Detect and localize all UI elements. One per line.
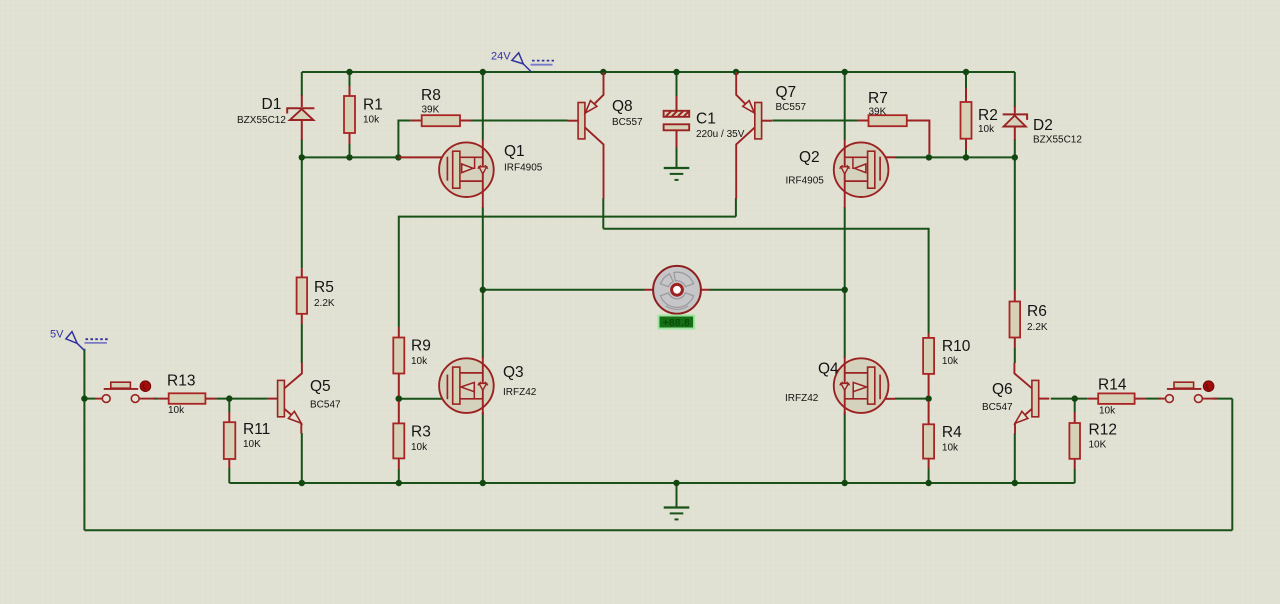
wire D1 upper segment xyxy=(301,72,303,96)
svg-text:BC547: BC547 xyxy=(310,400,341,411)
svg-text:R6: R6 xyxy=(1027,303,1047,320)
resistor R13 xyxy=(158,393,216,404)
svg-text:D1: D1 xyxy=(262,96,282,113)
svg-text:10k: 10k xyxy=(168,405,185,416)
svg-text:D2: D2 xyxy=(1033,117,1053,134)
svg-text:R9: R9 xyxy=(411,338,431,355)
svg-text:10k: 10k xyxy=(1099,406,1116,417)
svg-text:R12: R12 xyxy=(1089,422,1117,439)
wire R5 top from row xyxy=(301,157,303,268)
wire top 24V rail xyxy=(302,71,1015,73)
wire bottom return rail xyxy=(84,529,1232,531)
resistor R7 xyxy=(858,115,930,154)
resistor R12 xyxy=(1069,412,1080,469)
junction dots motor row xyxy=(480,287,848,293)
resistor R8 xyxy=(411,115,471,126)
wire left gate row xyxy=(302,156,399,158)
wire R5 bottom to Q5 collector xyxy=(301,324,303,363)
mosfet Q4 xyxy=(834,357,895,415)
svg-text:24V: 24V xyxy=(491,51,511,63)
svg-text:10k: 10k xyxy=(411,356,428,367)
svg-text:2.2K: 2.2K xyxy=(1027,322,1048,333)
wire Q2 drain to motor row xyxy=(844,207,846,290)
svg-text:R3: R3 xyxy=(411,424,431,441)
ground bottom rail xyxy=(664,508,690,520)
wire ground rail xyxy=(229,482,1074,484)
wire R12 top stub xyxy=(1074,399,1076,412)
svg-text:BZX55C12: BZX55C12 xyxy=(1033,135,1082,146)
transistor Q6 xyxy=(1014,363,1049,434)
mosfet Q1 xyxy=(398,140,493,208)
svg-text:Q4: Q4 xyxy=(818,361,839,378)
svg-text:Q1: Q1 xyxy=(504,143,525,160)
wire R3 bottom xyxy=(398,469,400,483)
wire motor row left xyxy=(483,289,645,291)
svg-text:R14: R14 xyxy=(1098,377,1127,394)
wire R8 left drop xyxy=(398,121,410,158)
junction dots gate rows xyxy=(299,154,1018,160)
junction dots top rail xyxy=(346,69,969,75)
wire right gate row xyxy=(929,156,1015,158)
resistor R9 xyxy=(393,327,404,396)
svg-text:10k: 10k xyxy=(978,124,995,135)
svg-text:10k: 10k xyxy=(942,356,959,367)
svg-text:R10: R10 xyxy=(942,338,971,355)
svg-text:Q5: Q5 xyxy=(310,378,331,395)
svg-text:10k: 10k xyxy=(411,442,428,453)
zener diode D1 xyxy=(287,95,314,140)
wire cross link Q7 to R9 xyxy=(399,217,736,327)
push button left xyxy=(95,381,155,403)
wire R11 top stub xyxy=(228,399,230,412)
svg-text:Q3: Q3 xyxy=(503,364,524,381)
svg-text:IRF4905: IRF4905 xyxy=(786,176,825,187)
wire Q3 source down xyxy=(482,412,484,483)
transistor Q7 xyxy=(736,72,772,199)
svg-text:+88.8: +88.8 xyxy=(663,318,690,329)
wire right button to corner xyxy=(1213,398,1232,400)
resistor R1 xyxy=(344,86,355,144)
wire 5V to button xyxy=(84,398,95,400)
wire Q8 collector drop xyxy=(602,198,604,229)
resistor R11 xyxy=(224,412,236,468)
mosfet Q2 xyxy=(834,140,895,208)
ground for C1 xyxy=(664,168,690,180)
wire R12 bottom corner xyxy=(1074,469,1076,483)
wire ground stem bottom xyxy=(676,483,678,508)
wire Q5 emitter down xyxy=(301,433,303,483)
power flag 24V xyxy=(512,53,554,72)
wire C1 top stub xyxy=(676,72,678,97)
svg-text:R11: R11 xyxy=(243,421,270,438)
svg-text:R7: R7 xyxy=(868,90,888,107)
junction dots ground rail xyxy=(299,480,1018,486)
svg-text:Q8: Q8 xyxy=(612,98,633,115)
power flag 5V xyxy=(66,332,110,351)
svg-text:R8: R8 xyxy=(421,87,441,104)
svg-text:R2: R2 xyxy=(978,107,998,124)
motor M1 xyxy=(645,266,710,314)
wire R6 to Q6 collector xyxy=(1014,348,1016,363)
wire R11 bottom corner xyxy=(228,468,230,483)
wire D1 lower to gate row xyxy=(301,139,303,157)
svg-text:R4: R4 xyxy=(942,424,962,441)
wire R13 to Q5 base xyxy=(216,398,267,400)
wire Q3 gate xyxy=(399,398,443,400)
svg-text:BC557: BC557 xyxy=(612,117,643,128)
svg-text:R1: R1 xyxy=(363,97,383,114)
wire R14 to right button xyxy=(1146,398,1162,400)
transistor Q8 xyxy=(568,72,604,199)
wire D2 upper segment xyxy=(1014,72,1016,107)
wire 5V column left xyxy=(83,349,85,531)
wire Q6 base to R12 node xyxy=(1051,398,1088,400)
svg-text:39K: 39K xyxy=(422,105,440,116)
resistor R6 xyxy=(1010,290,1021,348)
svg-text:BC557: BC557 xyxy=(776,102,807,113)
svg-text:Q2: Q2 xyxy=(799,149,820,166)
svg-text:BC547: BC547 xyxy=(982,402,1013,413)
wire Q6 emitter down xyxy=(1014,433,1016,483)
zener diode D2 xyxy=(1003,106,1027,140)
wire Q4 gate link xyxy=(895,398,929,400)
svg-text:IRF4905: IRF4905 xyxy=(504,163,543,174)
wire R8 right to Q8 base xyxy=(471,120,568,122)
wire motor row right xyxy=(710,289,845,291)
svg-text:10k: 10k xyxy=(942,443,959,454)
resistor R2 xyxy=(961,88,972,150)
svg-text:5V: 5V xyxy=(50,329,64,341)
wire Q2 gate link xyxy=(895,156,929,158)
svg-text:39K: 39K xyxy=(869,107,887,118)
wire Q7 base to R7 xyxy=(772,120,857,122)
svg-text:Q6: Q6 xyxy=(992,381,1013,398)
svg-text:R13: R13 xyxy=(167,373,195,390)
wire right drop xyxy=(1231,399,1233,531)
svg-text:10K: 10K xyxy=(243,439,261,450)
resistor R14 xyxy=(1087,393,1145,404)
wire C1 to ground xyxy=(676,147,678,168)
wire R4 bottom stub xyxy=(928,469,930,484)
resistor R4 xyxy=(923,401,934,469)
wire R1 bottom to row xyxy=(349,144,351,157)
svg-text:IRFZ42: IRFZ42 xyxy=(503,387,537,398)
svg-text:10K: 10K xyxy=(1089,440,1107,451)
resistor R5 xyxy=(297,268,308,324)
wire R1 top stub xyxy=(349,72,351,86)
junction dots base rows xyxy=(81,395,1078,402)
svg-text:C1: C1 xyxy=(696,111,716,128)
resistor R3 xyxy=(393,401,404,469)
wire Q1 drain to motor row xyxy=(482,207,484,290)
svg-text:IRFZ42: IRFZ42 xyxy=(785,393,819,404)
svg-text:Q7: Q7 xyxy=(776,84,797,101)
svg-text:R5: R5 xyxy=(314,279,334,296)
wire Q7 collector drop xyxy=(735,198,737,217)
capacitor C1 xyxy=(664,96,690,148)
resistor R10 xyxy=(923,333,934,396)
wire Q1 source to rail xyxy=(482,72,484,140)
motor rpm display xyxy=(659,316,695,329)
wire Q2 source to rail xyxy=(844,72,846,140)
wire cross link Q8 to R10 xyxy=(603,229,928,333)
mosfet Q3 xyxy=(439,357,494,415)
svg-text:2.2K: 2.2K xyxy=(314,298,335,309)
wire button to R13 xyxy=(153,398,158,400)
wire R2 top stub xyxy=(965,72,967,88)
svg-text:10k: 10k xyxy=(363,115,380,126)
wire D2 lower to row and R6 xyxy=(1014,139,1016,290)
wire Q4 drain up xyxy=(844,290,846,358)
push button right xyxy=(1158,381,1218,403)
wire Q4 source down xyxy=(844,412,846,483)
wire R2 bottom to row xyxy=(965,150,967,157)
wire Q3 drain up xyxy=(482,290,484,358)
transistor Q5 xyxy=(267,363,302,434)
svg-text:220u / 35V: 220u / 35V xyxy=(696,129,745,140)
svg-text:BZX55C12: BZX55C12 xyxy=(237,115,286,126)
